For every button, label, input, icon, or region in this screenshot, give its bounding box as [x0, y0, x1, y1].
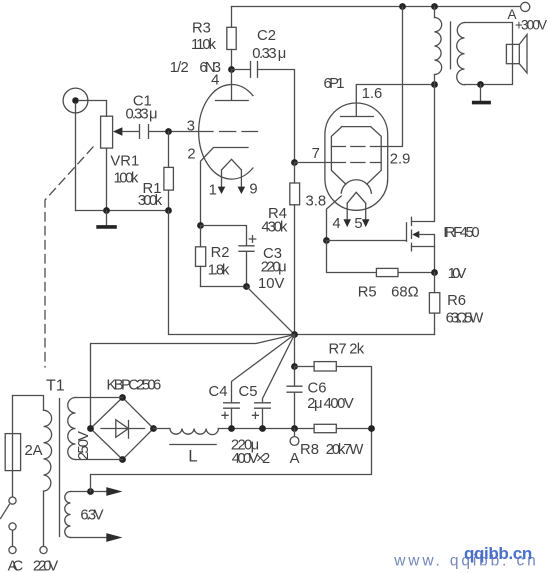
resistor R6 63ohm5W [429, 273, 483, 335]
svg-text:qqibb.cn: qqibb.cn [464, 544, 532, 563]
transistor Q1 IRF450 mosfet [327, 85, 480, 273]
svg-text:220V: 220V [33, 559, 59, 573]
svg-text:R8: R8 [300, 442, 319, 458]
wire main ground rail right [295, 334, 435, 336]
6N3 heater [222, 159, 242, 187]
junction dot plate/primary/drain [431, 81, 438, 88]
resistor R8 20k7W [300, 424, 371, 458]
svg-text:430k: 430k [261, 220, 288, 236]
svg-text:C4: C4 [209, 384, 228, 400]
svg-text:300k: 300k [138, 193, 163, 209]
svg-text:A: A [290, 451, 300, 467]
wire dashed mechanical link [45, 147, 93, 367]
wire node to bridge negative [91, 335, 295, 429]
6N3 heater arrow pin 9 [238, 181, 258, 197]
svg-text:R2: R2 [211, 245, 230, 261]
tube 6P1 envelope [325, 103, 388, 210]
junction dot R3/C2/plate [228, 66, 235, 73]
6P1 heater [347, 192, 366, 219]
6N3 cathode pin 2 [187, 147, 248, 226]
capacitor C2 0.33u [232, 28, 287, 77]
junction dot 6P1 cathode node [323, 237, 330, 244]
svg-text:R6: R6 [447, 293, 466, 309]
resistor R7 2k [295, 342, 372, 429]
6P1 plate pin 1.6 [341, 85, 435, 117]
svg-text:IRF450: IRF450 [443, 225, 479, 241]
svg-text:2A: 2A [24, 443, 42, 459]
node main ground junction [291, 331, 298, 338]
wire diagonal node to C4 [232, 335, 295, 403]
svg-text:R3: R3 [192, 21, 211, 37]
junction dot C4 bottom [228, 425, 235, 432]
junction dot C5 bottom [259, 425, 266, 432]
svg-text:100k: 100k [113, 171, 138, 187]
ground symbol speaker [472, 85, 491, 103]
wire diagonal to main node [247, 287, 295, 335]
resistor R3 110k [191, 7, 236, 70]
junction dot top rail x403 [399, 3, 406, 10]
6P1 cathode dome [341, 180, 371, 193]
wire diagonal node to C5 [263, 335, 295, 403]
junction dot heater tap [87, 488, 94, 495]
junction dot bridge right [150, 425, 157, 432]
svg-text:220μ: 220μ [261, 259, 287, 275]
svg-text:7: 7 [312, 146, 320, 162]
svg-text:0.33 μ: 0.33 μ [126, 107, 158, 123]
svg-text:1: 1 [209, 183, 217, 199]
transformer output secondary [457, 23, 465, 85]
node AC terminal 2 [33, 546, 59, 573]
junction dot secondary ground [477, 81, 484, 88]
junction dot R1 bottom [165, 207, 172, 214]
resistor R1 300k [138, 132, 174, 211]
bridge rectifier KBPC2506 [91, 378, 162, 460]
wire node down to C6 [294, 335, 296, 367]
wire B+ top rail [232, 6, 521, 8]
svg-text:10V: 10V [448, 266, 467, 282]
capacitor C5 [231, 384, 270, 467]
6P1 screen grid pin 2.9 [331, 7, 410, 168]
svg-text:1.8k: 1.8k [208, 263, 230, 279]
transformer T1 primary winding [13, 396, 44, 411]
junction dot 10V node [431, 266, 466, 282]
svg-text:3: 3 [187, 119, 195, 135]
wire secondary to speaker [465, 23, 513, 85]
tube 6N3 label [170, 60, 221, 76]
wire ground rail down to main node [169, 211, 295, 335]
svg-text:R5: R5 [358, 285, 377, 301]
junction dot bridge left [87, 425, 94, 432]
svg-text:68Ω: 68Ω [391, 285, 419, 301]
svg-text:3.8: 3.8 [306, 194, 327, 210]
svg-text:400V×2: 400V×2 [232, 451, 271, 467]
junction dot bridge top [119, 394, 126, 401]
potentiometer VR1 100k [101, 101, 140, 211]
node A terminal top [507, 2, 547, 32]
fuse 2A [5, 396, 42, 497]
junction dot top rail x434 [431, 3, 438, 10]
junction dot R7 tap [291, 363, 298, 370]
wire B+ rail bottom [218, 428, 314, 430]
ground symbol input [96, 211, 117, 227]
svg-text:VR1: VR1 [110, 154, 139, 170]
svg-text:250V: 250V [76, 431, 92, 460]
svg-text:10V: 10V [258, 276, 284, 292]
svg-text:6.3V: 6.3V [80, 508, 103, 524]
wire primary bottom [43, 491, 45, 546]
transformer T1 secondary 250V [68, 398, 123, 461]
svg-text:9: 9 [249, 181, 257, 197]
tube 6N3 envelope [199, 85, 253, 180]
speaker [506, 35, 527, 74]
svg-text:AC: AC [8, 559, 24, 573]
transformer output core [450, 22, 452, 69]
svg-text:6P1: 6P1 [324, 76, 345, 92]
svg-text:C5: C5 [239, 384, 258, 400]
capacitor C1 0.33u with wiper arrow [113, 94, 169, 139]
6P1 heater arrow pin 4 [332, 216, 351, 232]
svg-text:110k: 110k [191, 37, 217, 53]
capacitor C3 220u 10V [201, 226, 287, 293]
6P1 cathode pin 3.8 [306, 194, 342, 241]
resistor R5 68ohm [327, 241, 435, 301]
svg-text:2.9: 2.9 [390, 152, 411, 168]
wire heater bias line [91, 429, 372, 492]
transformer T1 core [46, 378, 65, 537]
junction dot C1/R1/grid [165, 128, 172, 135]
wire input ground rail [76, 210, 169, 212]
wire heater bottom with arrow [71, 533, 123, 542]
6P1 heater arrow pin 5 [354, 216, 369, 232]
junction dot C2/R4/pin7 [291, 159, 298, 166]
6N3 grid pin 3 [169, 119, 258, 135]
input jack [63, 88, 106, 210]
node AC terminal 1 [8, 546, 24, 573]
svg-text:4: 4 [332, 216, 340, 232]
6P1 beam plates [331, 127, 381, 185]
junction dot bridge bottom [119, 456, 126, 463]
svg-text:2: 2 [187, 147, 195, 163]
6N3 plate pin 4 [211, 70, 248, 101]
junction dot R7/R8/bias [368, 425, 375, 432]
wire C2 to grid of 6P1 [258, 70, 295, 163]
transformer output primary [434, 7, 436, 18]
junction dot VR1 bottom [103, 207, 110, 214]
capacitor C6 2u400V [287, 367, 354, 429]
capacitor C4 [209, 384, 240, 429]
6N3 heater arrow pin 1 [209, 183, 226, 199]
svg-text:1.6: 1.6 [362, 86, 383, 102]
resistor R4 430k [261, 163, 299, 335]
svg-text:20k7W: 20k7W [326, 442, 364, 458]
inductor L choke [154, 429, 219, 466]
svg-text:T1: T1 [46, 378, 65, 395]
svg-text:2μ 400V: 2μ 400V [307, 396, 354, 412]
node A terminal bottom [290, 429, 300, 468]
svg-text:1/2: 1/2 [170, 60, 189, 76]
svg-text:4: 4 [211, 72, 219, 88]
transformer T1 heater winding 6.3V [65, 492, 104, 538]
svg-text:0.33 μ: 0.33 μ [252, 46, 286, 62]
svg-text:C2: C2 [257, 28, 276, 44]
junction dot R2/C3 bottom [243, 283, 250, 290]
svg-text:KBPC2506: KBPC2506 [107, 378, 162, 394]
junction dot C6/A bottom [291, 425, 298, 432]
svg-text:63Ω5W: 63Ω5W [446, 310, 484, 326]
wire heater top with arrow [71, 487, 123, 496]
junction dot cathode/R2/C3 [197, 222, 204, 229]
svg-text:R7 2k: R7 2k [329, 342, 365, 358]
svg-text:+300V: +300V [515, 18, 547, 33]
resistor R2 1.8k [196, 226, 231, 287]
6P1 control grid pin 7 [295, 146, 382, 163]
svg-text:5: 5 [354, 216, 362, 232]
svg-text:C6: C6 [308, 381, 327, 397]
switch [1, 497, 17, 546]
svg-text:L: L [188, 447, 197, 466]
